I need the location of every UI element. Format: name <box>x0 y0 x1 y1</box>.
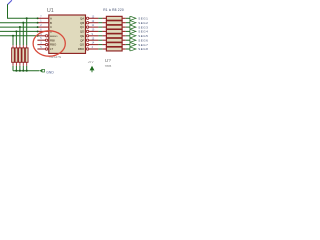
inversion bubble pin RBI <box>45 39 47 41</box>
resistor R12 (pull resistor) <box>22 45 24 48</box>
pin RBO stub <box>37 44 45 46</box>
annotation ellipse (red highlight) <box>33 31 65 56</box>
resistor R6 <box>102 39 106 41</box>
svg-text:SEG2: SEG2 <box>138 21 148 25</box>
svg-text:QD: QD <box>80 30 84 34</box>
wire below resistor R10 <box>15 66 17 71</box>
svg-text:QE: QE <box>80 34 84 38</box>
resistor R1 <box>102 17 106 19</box>
junction dot left pin row 2 <box>37 26 39 28</box>
junction dot row 1 <box>22 22 24 24</box>
svg-text:RBO: RBO <box>78 47 85 51</box>
pin QE stub <box>89 35 99 37</box>
junction dot row 4 <box>12 35 14 37</box>
svg-text:SEG7: SEG7 <box>138 43 148 47</box>
resistor R7 <box>102 44 106 46</box>
wire R4 to net flag <box>126 30 130 32</box>
svg-text:RBO: RBO <box>50 43 57 47</box>
inversion bubble pin BI/RBO <box>45 35 47 37</box>
+5V supply symbol <box>90 66 95 71</box>
pin RBO stub <box>89 48 99 50</box>
wire QA to resistor R1 <box>98 17 102 19</box>
wire drop row 3 to resistor column <box>15 31 17 45</box>
wire QB to resistor R2 <box>98 22 102 24</box>
resistor R9 (pull resistor) <box>12 45 14 48</box>
wire RBO to resistor R8 <box>98 48 102 50</box>
svg-text:7805: 7805 <box>105 64 112 68</box>
inversion bubble pin QC <box>86 26 88 28</box>
svg-text:QG: QG <box>80 43 85 47</box>
wire QD to resistor R4 <box>98 30 102 32</box>
wire drop row 2 to resistor column <box>19 27 21 45</box>
pin D stub <box>37 30 48 32</box>
resistor R5 <box>102 35 106 37</box>
wire QC to resistor R3 <box>98 26 102 28</box>
wire below resistor R12 <box>22 66 24 71</box>
resistor R11 (pull resistor) <box>19 45 21 48</box>
svg-text:SEG8: SEG8 <box>138 47 148 51</box>
inversion bubble pin QD <box>86 30 88 32</box>
wire net C <box>0 26 38 28</box>
wire net D <box>0 30 38 32</box>
svg-text:RBI: RBI <box>50 38 55 42</box>
wire GND rail <box>13 70 39 72</box>
wire R2 to net flag <box>126 22 130 24</box>
junction dot left pin row 1 <box>37 22 39 24</box>
svg-text:SEG4: SEG4 <box>138 30 148 34</box>
inversion bubble pin QE <box>86 35 88 37</box>
inversion bubble pin QA <box>86 17 88 19</box>
junction dot row 3 <box>15 30 17 32</box>
+5V symbol stem <box>91 70 93 72</box>
wire R7 to net flag <box>126 44 130 46</box>
wire QG to resistor R7 <box>98 44 102 46</box>
svg-text:R1 à R8 220: R1 à R8 220 <box>103 8 124 12</box>
svg-text:QA: QA <box>80 16 84 20</box>
net flag SEG3 <box>130 25 136 29</box>
pin C stub <box>37 26 48 28</box>
wire below resistor R9 <box>12 66 14 71</box>
net flag SEG4 <box>130 30 136 34</box>
pin QF stub <box>89 39 99 41</box>
junction dot GND rail x=19.9 <box>19 70 21 72</box>
junction dot GND rail x=23.3 <box>22 70 24 72</box>
svg-text:A: A <box>50 16 52 20</box>
pin B stub <box>37 22 48 24</box>
resistor R3 <box>102 26 106 28</box>
svg-text:SEG6: SEG6 <box>138 38 148 42</box>
pin LT stub <box>37 48 45 50</box>
svg-text:B: B <box>50 21 52 25</box>
net flag SEG5 <box>130 34 136 38</box>
wire QF to resistor R6 <box>98 39 102 41</box>
junction dot left pin row 4 <box>37 35 39 37</box>
net flag SEG1 <box>130 17 136 21</box>
IC U1 body (BCD to 7-segment decoder) <box>49 15 86 53</box>
svg-text:U1: U1 <box>47 8 54 14</box>
wire R8 to net flag <box>126 48 130 50</box>
pin A stub <box>37 17 48 19</box>
pin QB stub <box>89 22 99 24</box>
wire net E <box>0 35 38 37</box>
wire R1 to net flag <box>126 17 130 19</box>
net flag SEG7 <box>130 43 136 47</box>
wire drop row 4 to resistor column <box>12 36 14 46</box>
pin BI/RBO stub <box>37 35 45 37</box>
pin QC stub <box>89 26 99 28</box>
resistor R2 <box>102 22 106 24</box>
wire below resistor R13 <box>26 66 28 71</box>
resistor R10 (pull resistor) <box>15 45 17 48</box>
wire net B <box>0 22 38 24</box>
junction dot GND rail x=26.7 <box>26 70 28 72</box>
resistor R4 <box>102 30 106 32</box>
junction dot GND rail x=16.4 <box>15 70 17 72</box>
pin QD stub <box>89 30 99 32</box>
svg-text:SEG5: SEG5 <box>138 34 148 38</box>
svg-text:QB: QB <box>80 21 84 25</box>
wire drop row 1 to resistor column <box>22 23 24 46</box>
pin RBI stub <box>37 39 45 41</box>
inversion bubble pin RBO <box>86 48 88 50</box>
net flag SEG8 <box>130 47 136 51</box>
svg-text:QF: QF <box>80 38 84 42</box>
inversion bubble pin RBO <box>45 43 47 45</box>
junction dot row 0 <box>26 17 28 19</box>
resistor R13 (pull resistor) <box>26 45 28 48</box>
wire QE to resistor R5 <box>98 35 102 37</box>
wire R3 to net flag <box>126 26 130 28</box>
wire drop row 0 to resistor column <box>26 18 28 45</box>
inversion bubble pin LT <box>45 48 47 50</box>
ground flag box <box>42 69 44 72</box>
pin QG stub <box>89 44 99 46</box>
inversion bubble pin QF <box>86 39 88 41</box>
inversion bubble pin QG <box>86 43 88 45</box>
svg-text:LT: LT <box>50 47 53 51</box>
junction dot left pin row 3 <box>37 30 39 32</box>
svg-text:+5 V: +5 V <box>88 60 94 64</box>
resistor R8 <box>102 48 106 50</box>
junction dot row 2 <box>19 26 21 28</box>
wire below resistor R11 <box>19 66 21 71</box>
net flag SEG2 <box>130 21 136 25</box>
wire R6 to net flag <box>126 39 130 41</box>
svg-text:GND: GND <box>46 70 54 74</box>
svg-text:SEG1: SEG1 <box>138 17 148 21</box>
wire R5 to net flag <box>126 35 130 37</box>
wire vertical from bus entry to net A <box>8 4 38 18</box>
ground net flag <box>39 69 42 72</box>
pin QA stub <box>89 17 99 19</box>
net flag SEG6 <box>130 38 136 42</box>
bus entry wire (blue diagonal) <box>8 0 12 4</box>
junction dot left pin row 0 <box>37 17 39 19</box>
inversion bubble pin QB <box>86 22 88 24</box>
